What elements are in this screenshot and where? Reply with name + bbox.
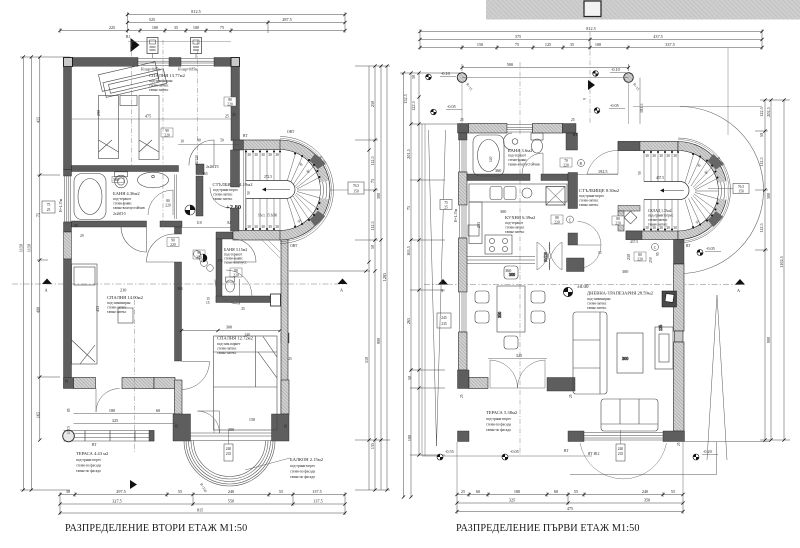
left plan: bedroom3 bottom wall with balcony door [191,433,272,441]
svg-text:100: 100 [152,25,158,30]
svg-text:55: 55 [671,489,675,494]
toilet [115,175,128,188]
svg-text:250: 250 [649,257,653,263]
svg-text:812.5: 812.5 [191,9,200,14]
svg-text:80: 80 [616,217,620,221]
svg-text:30: 30 [673,154,677,158]
svg-text:БАНЯ 3.15м2: БАНЯ 3.15м2 [224,247,247,252]
door to terrace [96,389,120,413]
svg-text:стени-по фасада: стени-по фасада [486,423,511,427]
svg-text:135: 135 [370,443,375,449]
svg-text:29: 29 [80,234,84,238]
svg-text:под-гранитогрес: под-гранитогрес [213,188,239,192]
svg-text:150: 150 [738,190,744,194]
right plan: kitchen label [476,209,536,234]
right plan: stair tread labels [638,154,725,263]
svg-text:76.5: 76.5 [738,185,744,189]
terrace round column [63,430,75,442]
svg-text:таван-по фасада: таван-по фасада [76,469,101,473]
svg-text:под-лам.паркет: под-лам.паркет [217,342,241,346]
svg-text:75: 75 [220,25,224,30]
svg-text:стени-по фасада: стени-по фасада [76,464,101,468]
door bath2 [233,239,256,262]
svg-text:80: 80 [555,216,559,220]
svg-text:75: 75 [370,179,375,183]
svg-text:30: 30 [254,153,258,157]
left plan: stair room labels [185,182,277,218]
svg-text:29: 29 [74,224,78,228]
svg-text:175: 175 [217,259,223,263]
svg-text:35: 35 [174,25,178,30]
svg-text:235: 235 [618,452,624,456]
stair inner stadium [246,181,295,199]
svg-text:437.5: 437.5 [630,240,638,244]
right plan: break line spikes [429,130,728,460]
left plan: terrace railing [64,431,155,442]
svg-text:таван-влагоуст.: таван-влагоуст. [224,261,247,265]
svg-text:30: 30 [261,225,265,229]
svg-text:таван-латекс: таван-латекс [213,197,233,201]
ring window east left tower [323,181,327,199]
svg-text:360: 360 [495,168,501,173]
left plan: right dimension chains [289,66,390,490]
svg-text:стени-фаянс: стени-фаянс [508,158,527,162]
svg-text:122.5: 122.5 [759,107,764,116]
svg-text:90: 90 [197,139,201,143]
svg-text:137.5: 137.5 [313,499,322,504]
right plan: tv cabinet [655,325,673,369]
right plan: 245/235 window box left [437,313,451,328]
svg-text:под-гранитогрес: под-гранитогрес [579,194,605,198]
svg-text:30: 30 [268,153,272,157]
svg-text:30: 30 [411,75,416,79]
window 2 top wall [181,59,214,66]
window in bath left wall [65,176,71,222]
svg-text:ТЕРАСА 5.38м2: ТЕРАСА 5.38м2 [486,410,518,415]
right plan: dining table and chairs [475,266,545,349]
vanity sink [138,172,169,188]
left plan: section A markers [12,279,348,293]
svg-text:327.5: 327.5 [112,499,121,504]
svg-text:БАНЯ 4.36м2: БАНЯ 4.36м2 [113,191,140,196]
svg-text:30: 30 [659,226,663,230]
svg-text:±0.00: ±0.00 [577,285,589,290]
svg-text:70: 70 [564,159,568,163]
svg-text:1285: 1285 [382,273,387,281]
svg-text:60: 60 [476,489,480,494]
svg-text:25: 25 [571,118,575,122]
left plan: bath1 fixtures [74,172,169,220]
svg-text:25: 25 [569,394,573,398]
svg-text:25: 25 [232,113,236,117]
left plan: bedroom1 room label [141,68,198,93]
svg-text:525: 525 [149,17,155,22]
left plan: bedroom3 label and bed [217,336,254,356]
svg-text:900: 900 [376,338,381,344]
left plan: misc small marks [74,224,135,487]
left plan: left outer wall [64,67,72,389]
svg-text:140: 140 [244,333,250,337]
right plan: bath fixtures [473,133,543,176]
svg-text:125: 125 [545,42,551,47]
svg-text:812.5: 812.5 [586,26,595,31]
right plan: fireplace corner [662,291,677,307]
right plan: stair area door arcs [578,150,619,268]
svg-text:815: 815 [197,508,203,513]
svg-text:300: 300 [226,325,232,330]
svg-text:-0.10: -0.10 [441,71,450,76]
svg-text:таван-латекс: таван-латекс [579,203,599,207]
svg-text:таван-по фасада: таван-по фасада [290,475,315,479]
svg-text:таван-латекс: таван-латекс [107,310,127,314]
right plan: bath door + 70/220 [522,153,585,174]
svg-text:25: 25 [288,357,292,361]
svg-text:25: 25 [241,307,245,311]
svg-text:25: 25 [175,424,179,428]
right plan: left outer wall with windows [458,133,489,389]
stair arrow line [263,189,290,191]
svg-text:ДНЕВНА-ТРАПЕЗАРИЯ 28.59м2: ДНЕВНА-ТРАПЕЗАРИЯ 28.59м2 [587,291,654,296]
tread end dots left tower [246,152,320,230]
svg-text:2х26П-5: 2х26П-5 [113,212,126,216]
svg-text:30: 30 [254,225,258,229]
elevation survey markers [431,71,600,115]
right tower inner stadium [644,182,689,200]
svg-text:стени-латекс: стени-латекс [505,226,525,230]
svg-text:под-гранитогрес: под-гранитогрес [290,464,316,468]
svg-text:таван-влагоустойчив: таван-влагоустойчив [113,206,145,210]
svg-text:150: 150 [353,190,359,194]
svg-text:85: 85 [67,408,71,412]
svg-text:под-теракот: под-теракот [505,221,524,225]
svg-text:таван-латекс: таван-латекс [505,230,525,234]
right plan: misc labels [564,133,691,456]
svg-text:192.5: 192.5 [598,169,607,174]
svg-text:таван-латекс: таван-латекс [149,88,169,92]
svg-text:50: 50 [370,245,375,249]
svg-text:БАЛКОН 2.15м2: БАЛКОН 2.15м2 [290,457,324,462]
svg-text:165: 165 [35,412,40,418]
right plan: bath bottom wall [467,174,568,181]
svg-text:15: 15 [206,301,210,305]
svg-text:112.5: 112.5 [370,221,375,230]
svg-text:202.5: 202.5 [766,107,771,116]
svg-text:137.5: 137.5 [67,426,71,434]
svg-text:Н=1.35м: Н=1.35м [59,198,63,212]
left plan: top vent boxes + marker [126,35,202,170]
svg-text:1150: 1150 [19,244,24,252]
ring piers right tower [710,158,719,167]
svg-text:таван-по фасада: таван-по фасада [486,428,511,432]
svg-text:55: 55 [574,489,578,494]
svg-text:БАНЯ 3.6м2: БАНЯ 3.6м2 [508,148,533,153]
svg-text:А: А [737,288,740,293]
svg-text:30: 30 [247,153,251,157]
right plan: big tower envelope circle [680,107,764,274]
svg-text:Н=1.35м: Н=1.35м [454,208,458,222]
svg-text:30: 30 [268,225,272,229]
door bath1 [121,227,147,252]
svg-text:30: 30 [666,154,670,158]
svg-text:245: 245 [441,316,447,320]
left plan: stair landing wall stub + door [210,150,348,231]
svg-text:стени-латекс: стени-латекс [213,193,233,197]
left plan: bedroom2 label and bed [95,288,144,315]
svg-text:СТЪЛБИЩЕ 8.30м2: СТЪЛБИЩЕ 8.30м2 [579,188,620,193]
svg-text:под-гранитогрес: под-гранитогрес [648,214,674,218]
svg-text:60: 60 [554,489,558,494]
left plan: bath2 contents [199,240,280,296]
svg-text:30: 30 [66,489,70,494]
svg-text:В1: В1 [126,35,130,39]
left plan: bath2 walls (under stairs) [216,232,282,306]
ring window east right tower [721,182,725,200]
svg-text:272.5: 272.5 [264,175,272,179]
svg-text:1102.5: 1102.5 [779,256,784,267]
svg-text:201.5: 201.5 [406,149,411,158]
right plan: top wall with window [458,124,578,151]
svg-text:220: 220 [554,221,560,225]
svg-text:25: 25 [444,206,448,210]
svg-text:235: 235 [441,322,447,326]
left plan: top dimension chain row1 812.5 [60,12,345,33]
svg-text:900: 900 [766,337,771,343]
svg-text:-0.10: -0.10 [611,67,620,72]
svg-text:-0.05: -0.05 [447,104,456,109]
svg-text:235: 235 [476,222,481,228]
svg-text:300: 300 [766,193,771,199]
svg-text:ОВТ: ОВТ [290,244,298,248]
scattered pier size labels [65,113,681,446]
right plan: sofa group [573,312,658,431]
svg-text:240: 240 [618,447,624,451]
svg-text:под-теракот: под-теракот [508,154,527,158]
right plan: window size box bottom [616,430,625,461]
ring piers left tower [312,157,321,166]
svg-text:стени-латекс: стени-латекс [579,199,599,203]
svg-text:95: 95 [656,252,660,256]
door bedroom2 from hall [147,234,175,262]
svg-text:-0.05: -0.05 [510,449,519,454]
left plan: interior wall bedroom1/bath y166 [72,164,205,175]
svg-text:под-ламиниран: под-ламиниран [587,297,610,301]
left plan: interior vertical wall x175 hall/bedroom2 [175,227,182,361]
right plan: kitchen counter and appliances [468,184,567,254]
svg-text:стени-фаянс: стени-фаянс [113,202,132,206]
svg-text:ЯТ Я12: ЯТ Я12 [588,452,600,456]
corner column top-left [64,58,73,67]
svg-text:ОВТ: ОВТ [287,130,295,134]
bath1 east door [148,175,176,220]
right plan: stair room west wall [567,173,585,272]
corner column top-right [231,58,240,67]
left plan: hall extra labels [178,139,293,362]
svg-text:490: 490 [35,307,40,313]
svg-text:30: 30 [645,226,649,230]
svg-text:под-гранитогрес: под-гранитогрес [486,417,512,421]
right plan: porch round columns [457,73,640,124]
svg-text:300: 300 [228,427,234,432]
svg-text:80/220: 80/220 [195,155,199,165]
left plan: bottom dimension rows [60,492,345,515]
left plan: ВТ labels [243,130,298,248]
right plan: section A markers [424,279,745,293]
svg-text:220: 220 [615,222,621,226]
right plan: living room labels [563,285,653,310]
left plan: balcony extra arc + railing posts [184,441,275,487]
svg-text:220: 220 [170,243,176,247]
svg-text:30: 30 [275,225,279,229]
svg-text:210: 210 [120,288,126,293]
svg-text:25: 25 [65,379,69,383]
svg-text:350: 350 [644,498,650,503]
svg-text:150: 150 [477,42,483,47]
left plan: east wall of bedroom3 (hatched) [281,239,288,432]
svg-text:165: 165 [202,172,208,176]
svg-text:183.5: 183.5 [639,104,644,113]
right plan: elevation labels top [440,67,626,110]
svg-text:ТЕРАСА 4.43 м2: ТЕРАСА 4.43 м2 [76,451,109,456]
svg-text:10: 10 [180,140,184,144]
svg-text:152.5: 152.5 [403,94,408,103]
svg-text:325: 325 [509,498,515,503]
svg-text:455: 455 [95,306,100,312]
svg-text:25: 25 [461,489,465,494]
right plan: terrace label [486,410,518,432]
svg-text:35: 35 [570,42,574,47]
svg-text:80: 80 [228,98,232,102]
svg-text:стени-латекс: стени-латекс [107,306,127,310]
svg-text:75: 75 [47,203,51,207]
svg-text:300: 300 [622,269,628,274]
svg-text:25: 25 [677,442,681,446]
dark piers right tower walls [618,142,640,151]
right plan: 76.5/150 box right [708,184,749,194]
left plan: bedroom1 beds [99,96,160,160]
right plan: bottom elevation markers [437,246,721,460]
svg-text:50: 50 [759,133,764,137]
svg-text:стени-латекс: стени-латекс [217,347,237,351]
window 1 top wall [138,59,169,66]
svg-text:РАЗПРЕДЕЛЕНИЕ ВТОРИ ЕТАЖ М1:50: РАЗПРЕДЕЛЕНИЕ ВТОРИ ЕТАЖ М1:50 [65,523,247,534]
right plan: stair tower outer walls [618,138,731,243]
svg-text:325: 325 [112,418,118,423]
right plan: left dimension chain [400,73,462,497]
axis centerlines left plan [135,40,198,453]
svg-text:90: 90 [165,129,169,133]
svg-text:25: 25 [284,424,288,428]
svg-text:225: 225 [109,25,115,30]
svg-text:475: 475 [145,114,151,119]
left plan: outer top wall with windows [64,58,240,67]
svg-text:300: 300 [376,193,381,199]
left plan: right wall of top bedroom [231,67,240,141]
left plan: right side 76.5/150 box [348,182,364,194]
svg-text:510: 510 [364,357,369,363]
svg-text:180: 180 [109,408,115,413]
svg-text:таван-латекс: таван-латекс [587,306,607,310]
right plan: lower terrace outline [570,442,770,475]
svg-text:СКЛАД 1.33м2: СКЛАД 1.33м2 [648,209,672,213]
svg-text:220: 220 [637,258,643,262]
svg-text:А: А [45,288,48,293]
svg-text:240: 240 [642,489,648,494]
svg-text:60: 60 [156,408,160,413]
svg-text:30: 30 [652,226,656,230]
svg-text:25: 25 [460,118,464,122]
svg-text:30: 30 [247,225,251,229]
left plan: terrace dims [67,408,175,434]
svg-text:80: 80 [166,199,170,203]
left plan: interior wall bath/bedroom2 y221 [72,221,183,227]
svg-text:50: 50 [638,171,642,175]
svg-text:75: 75 [515,42,519,47]
left plan: stair west wall lower stub [231,208,240,231]
svg-text:140: 140 [489,156,493,162]
svg-text:15: 15 [598,251,602,255]
svg-text:55: 55 [279,489,283,494]
svg-text:100: 100 [595,42,601,47]
tread end dots right tower [644,152,718,230]
svg-text:550: 550 [228,499,234,504]
svg-text:30: 30 [261,153,265,157]
stair tower outer walls (hatched) with arc [233,137,334,244]
svg-text:112.5: 112.5 [759,223,764,232]
right plan: butterfly door kitchen/living [537,242,562,270]
left plan: door arcs [96,140,256,433]
svg-text:375: 375 [515,34,521,39]
door bedroom3 west [182,362,210,390]
svg-text:СПАЛНЯ 14.00м2: СПАЛНЯ 14.00м2 [107,295,144,300]
svg-text:150: 150 [249,417,255,422]
svg-text:265: 265 [406,318,411,324]
svg-text:50: 50 [247,191,251,195]
svg-text:100: 100 [193,25,199,30]
svg-text:-0.05: -0.05 [706,246,715,251]
svg-text:90: 90 [171,239,175,243]
svg-text:МЗ: МЗ [178,287,183,291]
svg-text:110: 110 [196,221,201,225]
svg-text:415: 415 [35,117,40,123]
left plan: bath1 label [112,177,145,217]
right plan: porch canopy line [462,77,629,79]
svg-text:250: 250 [626,254,631,260]
svg-text:75: 75 [406,206,411,210]
svg-text:297.5: 297.5 [116,489,125,494]
svg-text:стени-по фасада: стени-по фасада [290,470,315,474]
svg-text:76.5: 76.5 [353,184,359,188]
svg-text:290: 290 [96,110,101,116]
svg-text:437.5: 437.5 [653,34,662,39]
svg-text:25: 25 [47,208,51,212]
right plan: storage room (СКЛАД) walls [618,206,640,232]
svg-text:437.5: 437.5 [656,176,664,180]
svg-text:122.5: 122.5 [411,101,416,110]
svg-text:50: 50 [407,376,412,380]
svg-text:240: 240 [228,489,234,494]
svg-text:РАЗПРЕДЕЛЕНИЕ ПЪРВИ ЕТАЖ М1:50: РАЗПРЕДЕЛЕНИЕ ПЪРВИ ЕТАЖ М1:50 [456,523,640,534]
svg-text:55: 55 [178,489,182,494]
svg-text:75: 75 [444,201,448,205]
left plan: door size labels [161,97,242,278]
svg-text:стени-латекс: стени-латекс [648,218,668,222]
door hall/stair [215,279,240,304]
left plan: terrace + balcony labels [76,451,324,489]
right plan: right dimension chains [755,100,790,440]
svg-text:300: 300 [622,356,628,361]
svg-text:220: 220 [563,164,569,168]
svg-text:50: 50 [220,139,224,143]
